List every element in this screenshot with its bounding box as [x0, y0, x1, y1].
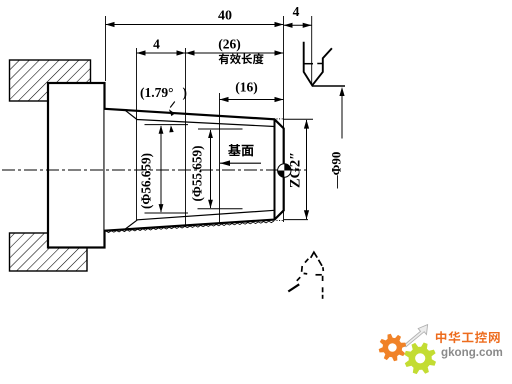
svg-text:(26): (26)	[218, 37, 241, 52]
svg-text:gkong.com: gkong.com	[441, 346, 503, 359]
svg-text:4: 4	[153, 37, 160, 52]
svg-text:4: 4	[293, 4, 300, 19]
svg-text:—Φ90: —Φ90	[329, 152, 344, 190]
svg-text:(16): (16)	[235, 80, 258, 95]
svg-text:): )	[183, 85, 188, 100]
svg-text:(Φ55.659): (Φ55.659)	[190, 146, 205, 202]
svg-text:(Φ56.659): (Φ56.659)	[139, 153, 154, 209]
svg-text:(1.79°: (1.79°	[140, 85, 174, 100]
svg-text:40: 40	[218, 9, 232, 24]
